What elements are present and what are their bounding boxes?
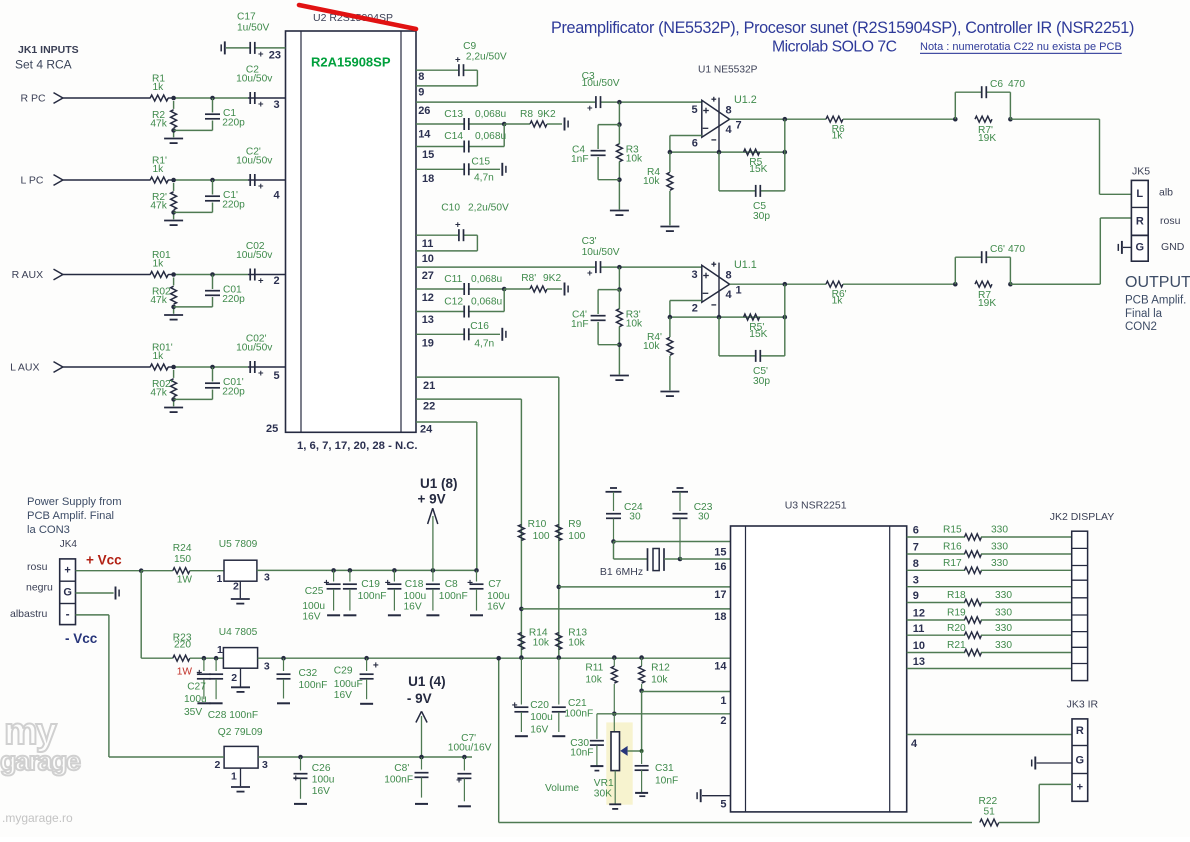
svg-text:R19: R19 [947, 608, 966, 619]
svg-text:JK1 INPUTS: JK1 INPUTS [18, 44, 79, 56]
svg-text:- 9V: - 9V [407, 691, 432, 706]
svg-text:1: 1 [231, 771, 237, 783]
svg-text:R22: R22 [979, 796, 998, 807]
svg-text:10u/50V: 10u/50V [582, 247, 620, 258]
svg-text:35V: 35V [184, 707, 202, 718]
svg-text:alb: alb [1159, 187, 1173, 199]
svg-text:+: + [258, 368, 264, 379]
svg-text:14: 14 [714, 661, 727, 673]
svg-text:R: R [1076, 725, 1084, 737]
svg-text:10u/50v: 10u/50v [236, 155, 273, 166]
svg-text:R9: R9 [568, 519, 581, 530]
svg-text:7: 7 [736, 119, 742, 131]
svg-text:C16: C16 [470, 321, 489, 332]
svg-text:2: 2 [692, 303, 698, 315]
svg-text:10k: 10k [643, 176, 660, 187]
svg-text:Volume: Volume [545, 783, 579, 794]
svg-text:C15: C15 [471, 157, 490, 168]
svg-text:C28 100nF: C28 100nF [208, 710, 258, 721]
svg-text:470: 470 [1008, 244, 1025, 255]
svg-text:1k: 1k [832, 295, 844, 306]
svg-text:19: 19 [422, 337, 434, 349]
svg-text:2: 2 [215, 759, 221, 771]
svg-text:C9: C9 [463, 41, 476, 52]
svg-text:+ 9V: + 9V [418, 492, 446, 507]
svg-text:51: 51 [984, 807, 996, 818]
svg-text:0,068u: 0,068u [475, 109, 506, 120]
svg-text:4: 4 [274, 190, 281, 202]
svg-text:1: 1 [736, 284, 742, 296]
svg-text:G: G [63, 586, 72, 598]
svg-text:C31: C31 [655, 763, 674, 774]
svg-text:R: R [1136, 216, 1144, 228]
svg-text:+: + [64, 565, 70, 577]
svg-text:R AUX: R AUX [12, 269, 44, 281]
svg-text:4: 4 [726, 289, 733, 301]
svg-text:3: 3 [264, 660, 270, 672]
svg-text:10nF: 10nF [570, 748, 593, 759]
svg-text:6: 6 [692, 138, 698, 150]
svg-text:PCB Amplif. Final: PCB Amplif. Final [27, 510, 114, 522]
svg-text:25: 25 [266, 423, 278, 435]
svg-text:U3 NSR2251: U3 NSR2251 [785, 500, 847, 512]
svg-text:la CON3: la CON3 [27, 524, 70, 536]
svg-text:100u: 100u [184, 694, 207, 705]
svg-text:220p: 220p [222, 200, 245, 211]
svg-text:OUTPUT: OUTPUT [1125, 274, 1190, 291]
svg-text:11: 11 [913, 623, 925, 635]
svg-text:U1 (4): U1 (4) [408, 674, 446, 689]
svg-text:U1 NE5532P: U1 NE5532P [698, 65, 758, 76]
svg-text:+: + [293, 774, 299, 785]
svg-text:330: 330 [995, 623, 1012, 634]
svg-text:R11: R11 [585, 663, 603, 674]
svg-text:Microlab SOLO 7C: Microlab SOLO 7C [772, 39, 897, 56]
svg-text:1k: 1k [153, 351, 165, 362]
svg-text:8: 8 [418, 71, 424, 83]
svg-text:4,7n: 4,7n [474, 172, 494, 183]
svg-text:330: 330 [995, 608, 1012, 619]
svg-text:330: 330 [995, 640, 1012, 651]
svg-text:L PC: L PC [21, 174, 44, 186]
svg-text:17: 17 [714, 589, 726, 601]
svg-text:G: G [1136, 242, 1145, 254]
svg-text:7: 7 [913, 542, 919, 554]
svg-text:R12: R12 [651, 663, 670, 674]
svg-text:15K: 15K [749, 329, 767, 340]
svg-text:JK3 IR: JK3 IR [1067, 699, 1099, 711]
svg-text:+: + [258, 49, 264, 60]
svg-text:100nF: 100nF [384, 774, 413, 785]
svg-text:.mygarage.ro: .mygarage.ro [2, 811, 73, 825]
svg-text:rosu: rosu [1160, 215, 1181, 227]
svg-text:C18: C18 [405, 579, 424, 590]
svg-text:15: 15 [422, 149, 434, 161]
svg-text:- Vcc: - Vcc [65, 631, 98, 646]
svg-text:R18: R18 [947, 590, 966, 601]
svg-text:330: 330 [995, 590, 1012, 601]
svg-text:10u/50v: 10u/50v [236, 342, 273, 353]
svg-text:negru: negru [26, 582, 53, 594]
svg-text:220p: 220p [222, 294, 245, 305]
svg-text:C8: C8 [445, 579, 458, 590]
svg-text:C21: C21 [568, 698, 587, 709]
svg-text:R8: R8 [520, 109, 533, 120]
svg-text:R24: R24 [173, 543, 192, 554]
svg-text:0,068u: 0,068u [471, 296, 502, 307]
svg-text:220p: 220p [222, 118, 245, 129]
svg-text:16: 16 [714, 561, 726, 573]
svg-text:+: + [587, 268, 593, 279]
svg-text:9: 9 [913, 590, 919, 602]
svg-text:C11: C11 [444, 274, 462, 285]
svg-text:10k: 10k [651, 674, 668, 685]
svg-text:15: 15 [714, 546, 726, 558]
svg-text:1k: 1k [153, 82, 165, 93]
svg-text:R2A15908SP: R2A15908SP [311, 55, 391, 70]
svg-text:2,2u/50V: 2,2u/50V [466, 52, 507, 63]
svg-text:13: 13 [913, 656, 925, 668]
svg-text:1k: 1k [153, 164, 165, 175]
svg-text:1k: 1k [832, 130, 844, 141]
svg-text:10nF: 10nF [655, 776, 678, 787]
svg-text:10k: 10k [533, 638, 550, 649]
svg-text:Q2 79L09: Q2 79L09 [218, 727, 263, 738]
svg-text:Final la: Final la [1125, 308, 1163, 320]
svg-text:C3': C3' [582, 236, 597, 247]
svg-text:C32: C32 [299, 668, 318, 679]
svg-text:9K2: 9K2 [538, 109, 556, 120]
svg-text:14: 14 [418, 129, 431, 141]
svg-text:3: 3 [913, 574, 919, 586]
svg-text:100nF: 100nF [358, 591, 387, 602]
svg-text:10k: 10k [643, 341, 660, 352]
svg-text:U4 7805: U4 7805 [219, 627, 258, 638]
svg-text:C27: C27 [187, 682, 206, 693]
svg-text:1: 1 [217, 573, 223, 585]
svg-text:+: + [373, 661, 379, 672]
svg-text:Set 4 RCA: Set 4 RCA [15, 58, 72, 72]
svg-text:1, 6, 7, 17, 20, 28 - N.C.: 1, 6, 7, 17, 20, 28 - N.C. [297, 440, 418, 452]
svg-text:+: + [455, 55, 461, 66]
svg-text:18: 18 [422, 173, 434, 185]
svg-text:C6: C6 [990, 79, 1003, 90]
svg-text:22: 22 [423, 401, 435, 413]
svg-text:C12: C12 [444, 296, 463, 307]
svg-text:30p: 30p [753, 376, 770, 387]
svg-text:1W: 1W [177, 574, 193, 585]
svg-text:100u: 100u [302, 601, 325, 612]
svg-text:L: L [1136, 188, 1143, 200]
svg-text:+: + [467, 578, 473, 589]
svg-text:+: + [512, 701, 518, 712]
svg-text:Nota : numerotatia C22 nu exis: Nota : numerotatia C22 nu exista pe PCB [920, 41, 1122, 53]
svg-text:0,068u: 0,068u [471, 274, 502, 285]
svg-text:47k: 47k [150, 119, 167, 130]
svg-text:JK4: JK4 [60, 539, 78, 550]
svg-text:100u/16V: 100u/16V [448, 743, 492, 754]
svg-text:13: 13 [422, 314, 434, 326]
svg-text:+: + [324, 578, 330, 589]
svg-text:10u/50v: 10u/50v [236, 73, 273, 84]
svg-text:220: 220 [174, 640, 191, 651]
svg-text:100nF: 100nF [299, 680, 328, 691]
svg-text:4: 4 [726, 124, 733, 136]
svg-text:+: + [1077, 782, 1083, 794]
svg-text:B1 6MHz: B1 6MHz [600, 566, 643, 578]
svg-text:C8': C8' [394, 763, 409, 774]
svg-text:30p: 30p [753, 211, 770, 222]
svg-text:Power Supply from: Power Supply from [27, 496, 122, 508]
svg-text:+: + [455, 220, 461, 231]
svg-text:2: 2 [274, 275, 280, 287]
svg-text:+: + [385, 578, 391, 589]
svg-text:19K: 19K [978, 298, 996, 309]
svg-text:3: 3 [262, 759, 268, 771]
svg-text:12: 12 [913, 608, 925, 620]
svg-text:1: 1 [217, 644, 223, 656]
svg-text:1nF: 1nF [571, 154, 589, 165]
svg-text:100: 100 [568, 531, 585, 542]
svg-text:R17: R17 [943, 558, 962, 569]
svg-text:C19: C19 [361, 579, 380, 590]
svg-text:2: 2 [720, 715, 726, 727]
svg-text:+: + [456, 776, 462, 787]
svg-text:150: 150 [174, 554, 191, 565]
svg-text:10k: 10k [626, 319, 643, 330]
svg-text:26: 26 [418, 105, 430, 117]
svg-text:100: 100 [533, 531, 550, 542]
svg-text:C26: C26 [312, 763, 331, 774]
svg-text:2: 2 [231, 672, 237, 684]
svg-text:3: 3 [692, 269, 698, 281]
svg-text:330: 330 [991, 558, 1008, 569]
svg-text:GND: GND [1161, 241, 1185, 253]
svg-text:47k: 47k [150, 295, 167, 306]
svg-text:2: 2 [233, 581, 239, 593]
svg-text:4,7n: 4,7n [474, 338, 494, 349]
svg-text:3: 3 [264, 571, 270, 583]
svg-text:10: 10 [422, 253, 434, 265]
svg-text:16V: 16V [404, 602, 422, 613]
svg-text:100uF: 100uF [334, 679, 363, 690]
svg-text:10k: 10k [626, 154, 643, 165]
svg-text:C29: C29 [334, 666, 353, 677]
svg-text:R15: R15 [943, 525, 962, 536]
svg-text:R20: R20 [947, 623, 966, 634]
svg-text:+ Vcc: + Vcc [86, 553, 122, 568]
svg-text:albastru: albastru [10, 608, 48, 620]
svg-text:R10: R10 [528, 519, 547, 530]
svg-text:U1.2: U1.2 [734, 94, 757, 106]
svg-text:5: 5 [274, 370, 280, 382]
svg-text:5: 5 [692, 104, 698, 116]
svg-text:8: 8 [726, 270, 732, 282]
svg-text:1W: 1W [177, 666, 193, 677]
svg-text:4: 4 [911, 738, 918, 750]
svg-text:C17: C17 [237, 12, 256, 23]
svg-text:24: 24 [420, 424, 433, 436]
svg-text:330: 330 [991, 542, 1008, 553]
svg-text:10k: 10k [585, 674, 602, 685]
svg-text:8: 8 [726, 105, 732, 117]
svg-text:R8': R8' [521, 273, 536, 284]
svg-text:6: 6 [913, 525, 919, 537]
svg-text:Preamplificator (NE5532P), Pro: Preamplificator (NE5532P), Procesor sune… [551, 19, 1134, 37]
svg-text:30: 30 [629, 512, 641, 523]
svg-text:R16: R16 [943, 542, 962, 553]
svg-text:garage: garage [0, 746, 81, 776]
svg-text:2,2u/50V: 2,2u/50V [468, 203, 509, 214]
svg-text:C20: C20 [530, 700, 549, 711]
svg-text:+: + [258, 276, 264, 287]
svg-text:+: + [258, 181, 264, 192]
svg-text:9K2: 9K2 [543, 273, 561, 284]
svg-text:3: 3 [274, 99, 280, 111]
svg-text:10u/50v: 10u/50v [236, 250, 273, 261]
svg-text:16V: 16V [334, 690, 352, 701]
svg-text:30: 30 [698, 512, 710, 523]
svg-text:CON2: CON2 [1125, 321, 1157, 333]
svg-text:1u/50V: 1u/50V [237, 22, 269, 33]
svg-text:470: 470 [1008, 79, 1025, 90]
svg-text:+: + [258, 99, 264, 110]
svg-text:100nF: 100nF [564, 709, 593, 720]
svg-text:1: 1 [720, 695, 726, 707]
svg-text:5: 5 [720, 798, 726, 810]
svg-text:G: G [1076, 755, 1085, 767]
svg-text:8: 8 [913, 558, 919, 570]
svg-text:220p: 220p [222, 387, 245, 398]
svg-text:C13: C13 [444, 109, 463, 120]
svg-text:11: 11 [422, 238, 434, 250]
svg-text:16V: 16V [530, 724, 548, 735]
svg-text:VR1: VR1 [594, 778, 614, 789]
svg-text:U5 7809: U5 7809 [219, 539, 258, 550]
svg-text:23: 23 [269, 50, 281, 62]
svg-text:47k: 47k [150, 201, 167, 212]
svg-text:1nF: 1nF [571, 319, 589, 330]
svg-text:9: 9 [418, 87, 424, 99]
svg-text:C25: C25 [305, 586, 324, 597]
svg-text:PCB Amplif.: PCB Amplif. [1125, 295, 1186, 307]
svg-text:100u: 100u [487, 591, 510, 602]
svg-text:100u: 100u [312, 775, 335, 786]
svg-text:U1 (8): U1 (8) [420, 476, 458, 491]
svg-text:21: 21 [423, 380, 435, 392]
svg-text:C14: C14 [444, 131, 463, 142]
svg-text:16V: 16V [487, 602, 505, 613]
svg-text:100nF: 100nF [439, 591, 468, 602]
svg-text:rosu: rosu [27, 561, 48, 573]
svg-text:100u: 100u [530, 712, 553, 723]
svg-text:16V: 16V [312, 786, 330, 797]
svg-text:27: 27 [422, 270, 434, 282]
svg-text:JK5: JK5 [1132, 166, 1150, 178]
svg-text:100u: 100u [404, 591, 427, 602]
svg-text:+: + [196, 668, 202, 679]
svg-text:+: + [587, 103, 593, 114]
svg-text:C10: C10 [441, 203, 460, 214]
svg-text:R21: R21 [947, 640, 966, 651]
svg-text:19K: 19K [978, 133, 996, 144]
svg-text:15K: 15K [749, 164, 767, 175]
svg-text:12: 12 [422, 292, 434, 304]
svg-text:JK2 DISPLAY: JK2 DISPLAY [1050, 511, 1115, 523]
svg-text:C7: C7 [488, 579, 501, 590]
svg-text:R PC: R PC [21, 92, 47, 104]
svg-text:U1.1: U1.1 [734, 259, 757, 271]
svg-text:10u/50V: 10u/50V [582, 78, 620, 89]
svg-text:1k: 1k [153, 259, 165, 270]
svg-text:-: - [66, 607, 70, 621]
svg-text:30K: 30K [594, 789, 612, 800]
svg-text:0,068u: 0,068u [475, 131, 506, 142]
svg-text:L AUX: L AUX [10, 361, 39, 373]
svg-text:18: 18 [714, 611, 726, 623]
svg-text:16V: 16V [302, 612, 320, 623]
svg-text:C6': C6' [990, 244, 1005, 255]
svg-text:47k: 47k [150, 388, 167, 399]
svg-text:330: 330 [991, 525, 1008, 536]
svg-text:10: 10 [913, 640, 925, 652]
svg-text:10k: 10k [568, 638, 585, 649]
